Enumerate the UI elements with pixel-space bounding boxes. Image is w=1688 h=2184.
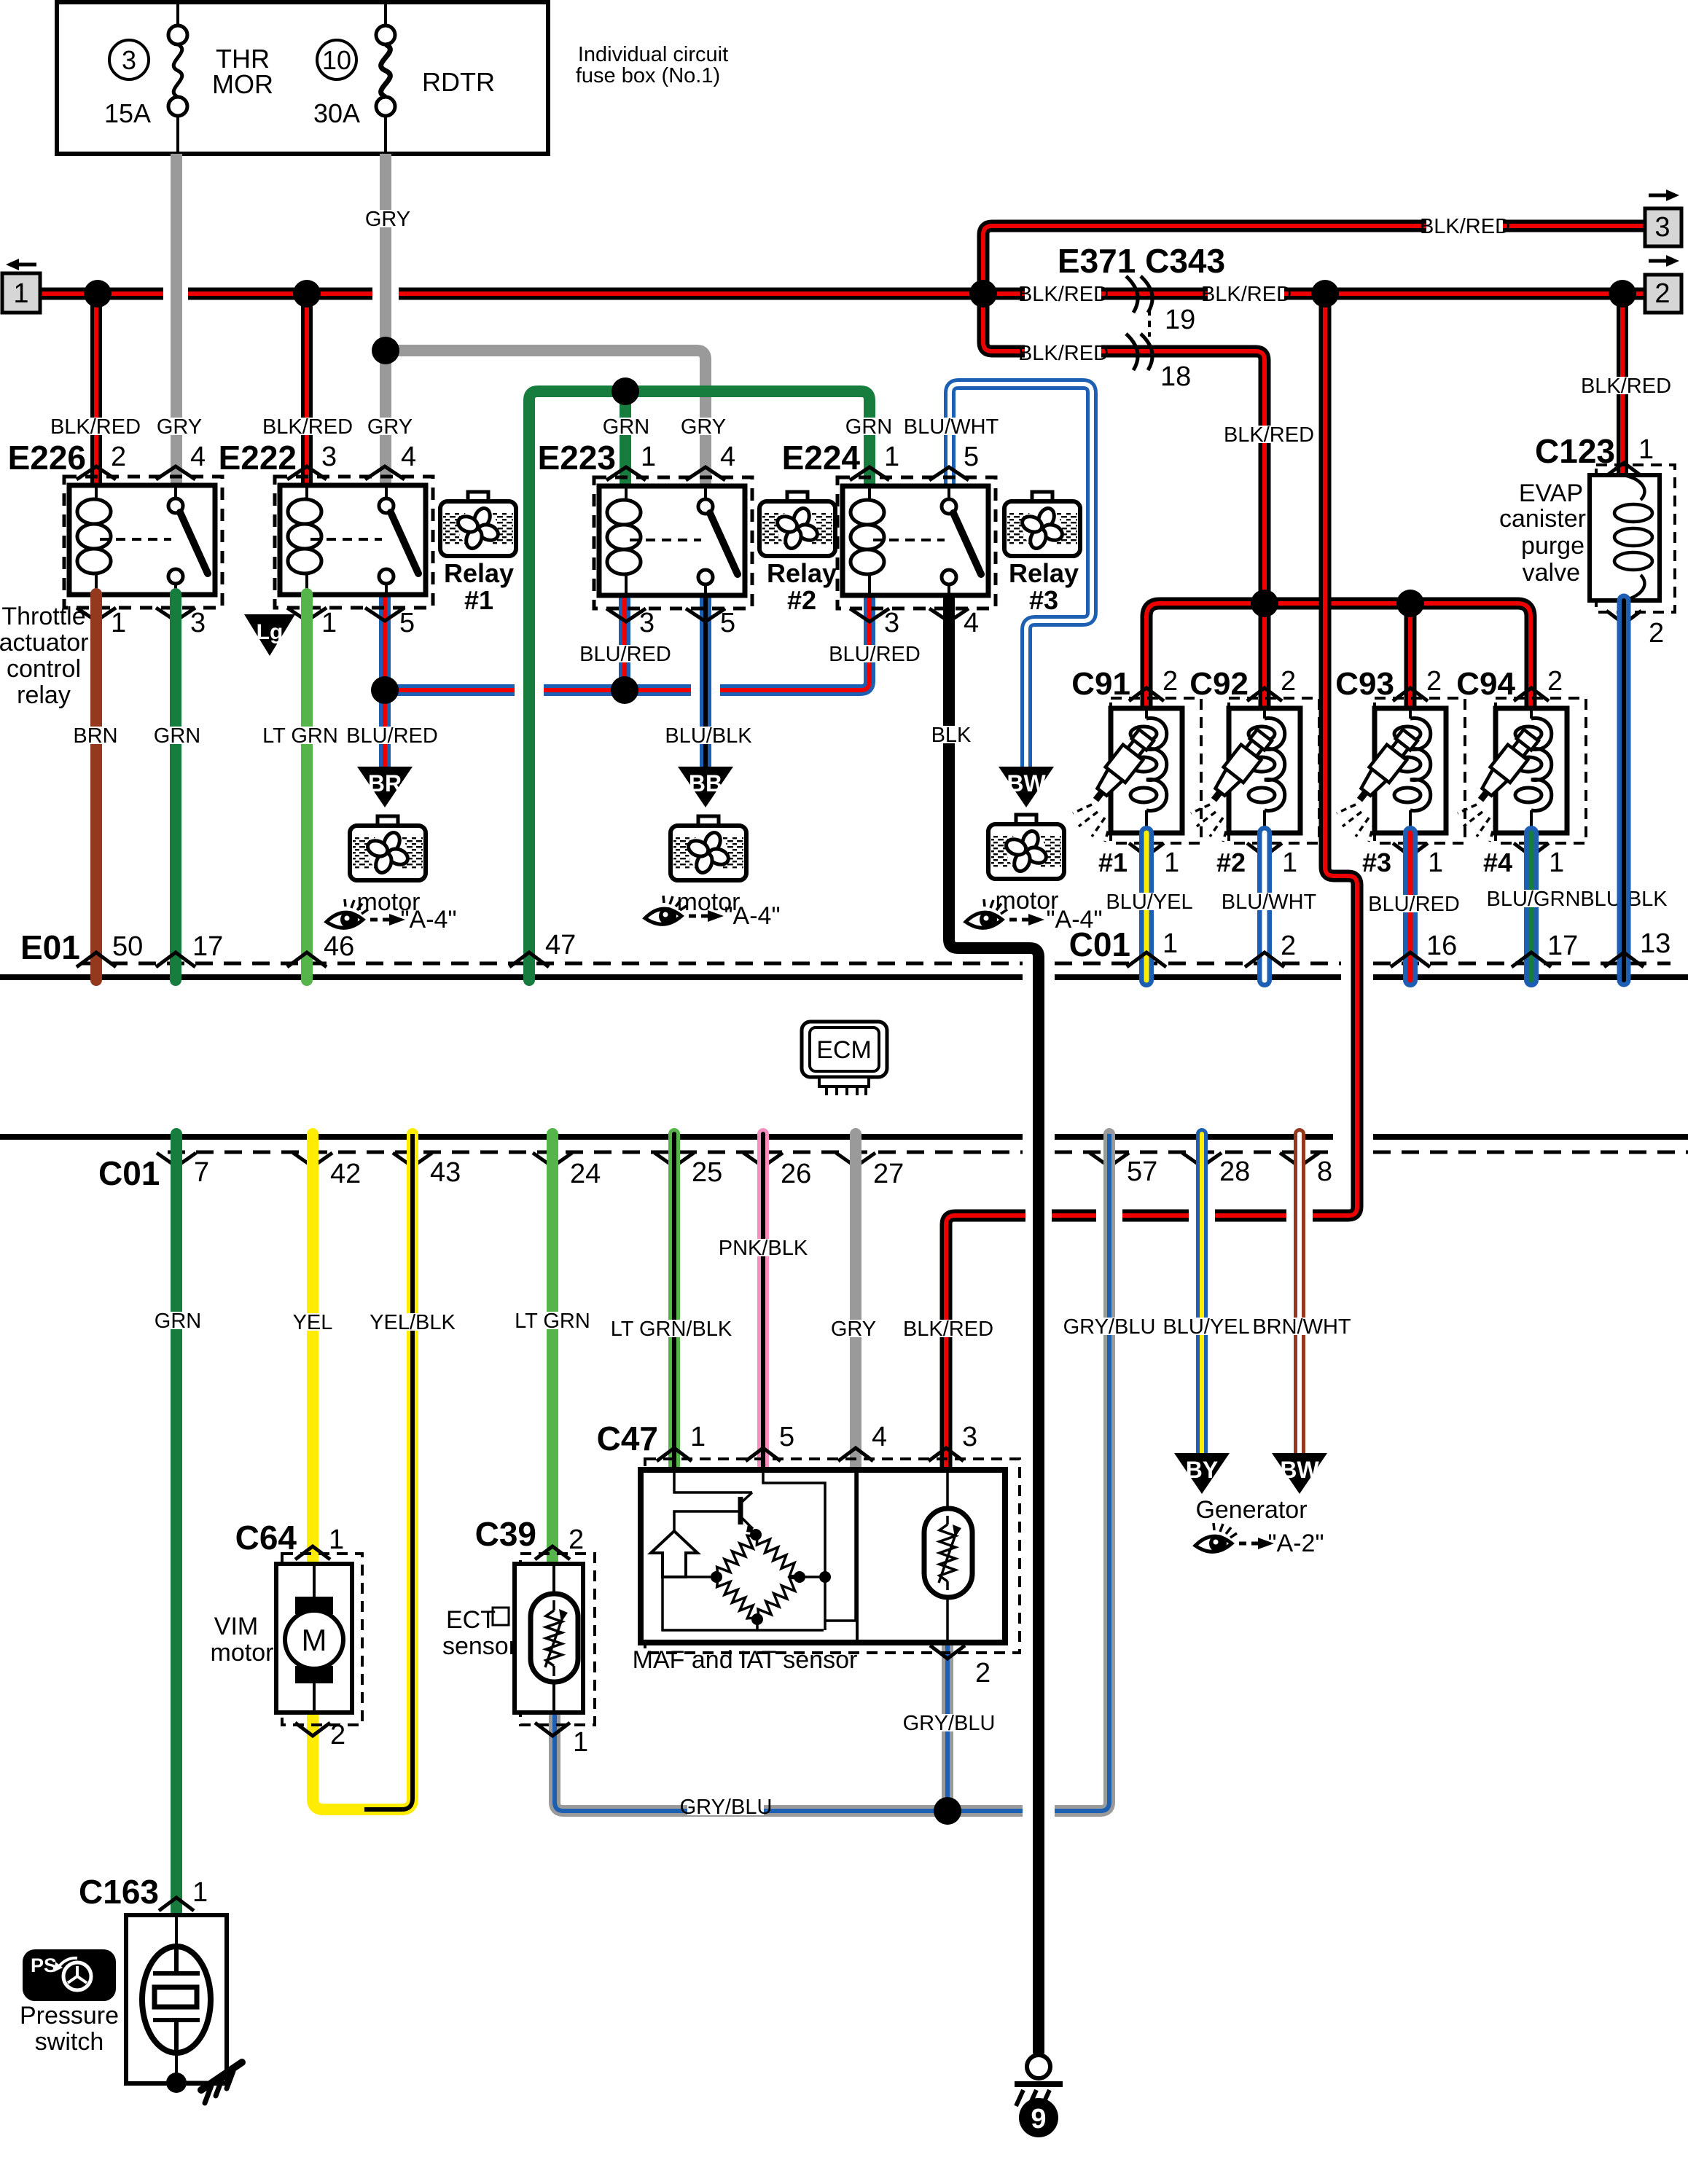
injector C92 [1191, 698, 1319, 843]
wire BLU/GRN injector C94 pin1 to C01 pin17 [1524, 833, 1539, 980]
node C01 row2 connector dashed line [168, 1151, 1688, 1154]
wire BLK/RED injector distribution [1146, 603, 1531, 710]
svg-text:2: 2 [330, 1720, 345, 1750]
svg-text:15A: 15A [104, 98, 151, 128]
svg-text:GRY: GRY [365, 208, 410, 231]
svg-text:C47: C47 [597, 1420, 658, 1457]
node E01 row1 label and pins [20, 928, 576, 967]
node C01 row2 boundary solid line [0, 1134, 1688, 1140]
svg-text:BLU/YEL: BLU/YEL [1106, 891, 1192, 914]
label 19 [1165, 305, 1195, 335]
svg-text:1: 1 [1282, 848, 1297, 878]
svg-text:E224: E224 [782, 439, 861, 477]
svg-text:#3: #3 [1362, 848, 1391, 877]
svg-text:GRY: GRY [367, 415, 413, 439]
relay E226 [64, 477, 222, 608]
relay #3 label [1009, 558, 1079, 615]
svg-text:46: 46 [324, 931, 354, 962]
wire BLU/RED relay E223 pin3 drop [619, 594, 630, 690]
svg-text:1: 1 [1549, 848, 1564, 878]
svg-text:13: 13 [1640, 928, 1671, 959]
wire BLU/BLK relay E223 pin5 to BB arrow [700, 594, 711, 767]
svg-text:1: 1 [13, 278, 28, 309]
svg-text:2: 2 [1281, 931, 1296, 961]
svg-text:"A-2": "A-2" [1267, 1530, 1324, 1557]
svg-text:BLK: BLK [931, 724, 972, 747]
pressure switch C163 [126, 1915, 227, 2083]
svg-text:EVAP: EVAP [1519, 480, 1583, 507]
injector wire color labels [1106, 888, 1668, 916]
arrow BW [999, 767, 1054, 807]
svg-text:Relay: Relay [1009, 558, 1079, 588]
svg-text:4: 4 [872, 1422, 887, 1452]
svg-text:"A-4": "A-4" [724, 902, 780, 930]
svg-text:BRN/WHT: BRN/WHT [1252, 1315, 1351, 1339]
svg-text:1: 1 [329, 1525, 344, 1555]
individual circuit fuse box No.1 [57, 2, 548, 154]
node C01 row1 label and pins [1069, 925, 1671, 967]
svg-text:BY: BY [1186, 1457, 1218, 1483]
relay E224 pins 1,5,3,4 [850, 442, 979, 638]
svg-text:GRY: GRY [831, 1318, 876, 1341]
svg-text:GRY/BLU: GRY/BLU [1063, 1315, 1156, 1339]
svg-text:47: 47 [545, 930, 576, 960]
svg-text:9: 9 [1031, 2104, 1046, 2134]
svg-text:BW: BW [1280, 1457, 1319, 1483]
svg-text:BLK/RED: BLK/RED [50, 415, 141, 439]
injector C93 pins [1362, 666, 1443, 878]
svg-text:C91: C91 [1071, 666, 1130, 702]
connector 3 [1645, 189, 1681, 246]
svg-text:2: 2 [1649, 618, 1664, 649]
relay #1 label [444, 558, 514, 615]
svg-text:57: 57 [1127, 1156, 1157, 1187]
svg-text:5: 5 [779, 1422, 794, 1452]
svg-text:relay: relay [17, 681, 71, 709]
svg-text:C39: C39 [475, 1515, 536, 1553]
svg-text:GRY/BLU: GRY/BLU [680, 1796, 773, 1819]
connector break E371 C343 pin18 [1126, 334, 1152, 370]
svg-text:BLK/RED: BLK/RED [1018, 342, 1109, 365]
junction GRN [611, 377, 639, 405]
svg-text:Relay: Relay [444, 558, 514, 588]
wire GRY/BLU C01 pin57 to junction [555, 1134, 1109, 1811]
svg-text:2: 2 [111, 442, 126, 472]
svg-text:#4: #4 [1483, 848, 1512, 877]
label motor A-4 (BW) [966, 887, 1103, 934]
svg-text:valve: valve [1523, 559, 1580, 587]
C47 label and pins [597, 1420, 991, 1688]
svg-text:VIM: VIM [214, 1613, 258, 1640]
svg-text:30A: 30A [313, 98, 360, 128]
svg-text:8: 8 [1317, 1156, 1332, 1187]
injector C92 pins [1216, 666, 1297, 878]
svg-text:BLU/RED: BLU/RED [829, 643, 921, 666]
svg-text:E371 C343: E371 C343 [1058, 242, 1225, 280]
wire BLU/YEL injector C91 pin1 to C01 pin1 [1139, 833, 1154, 980]
relay #1 icon [440, 492, 516, 556]
svg-text:GRY: GRY [681, 415, 726, 439]
svg-text:18: 18 [1160, 361, 1191, 392]
label BLK/RED at C123 [1581, 375, 1671, 398]
svg-text:4: 4 [401, 442, 416, 472]
svg-text:GRN: GRN [155, 1310, 201, 1333]
svg-text:BLK/RED: BLK/RED [903, 1318, 993, 1341]
relay E222 pins 3,4,1,5 [287, 442, 416, 638]
arrow BR [357, 767, 413, 807]
svg-text:ECM: ECM [816, 1036, 872, 1064]
relay E223 label [538, 439, 616, 477]
svg-text:purge: purge [1521, 532, 1585, 560]
IAT thermistor [924, 1470, 972, 1643]
svg-text:42: 42 [330, 1159, 361, 1189]
C39 label and pins [475, 1515, 589, 1758]
svg-text:3: 3 [962, 1422, 977, 1452]
svg-text:2: 2 [1547, 666, 1563, 697]
svg-text:E226: E226 [8, 439, 86, 477]
svg-text:E222: E222 [219, 439, 297, 477]
svg-text:1: 1 [1428, 848, 1443, 878]
svg-text:#1: #1 [464, 585, 493, 615]
svg-text:E01: E01 [20, 928, 80, 966]
svg-text:BLK/RED: BLK/RED [1201, 283, 1292, 306]
svg-text:GRN: GRN [603, 415, 649, 439]
svg-text:fuse box (No.1): fuse box (No.1) [576, 64, 720, 87]
svg-text:17: 17 [1547, 931, 1578, 961]
svg-text:1: 1 [690, 1422, 706, 1452]
injector C91 [1073, 698, 1201, 843]
svg-text:4: 4 [190, 442, 206, 472]
svg-text:26: 26 [781, 1159, 811, 1189]
junction GRY [372, 337, 399, 364]
ECT sensor C39 [515, 1554, 595, 1725]
wire BLK/RED main bus to MAF C47 pin3 [946, 294, 1357, 1470]
junction GRY/BLU [934, 1797, 961, 1825]
relay #3 icon [1004, 492, 1080, 556]
wire BLU/RED horizontal link [385, 594, 870, 690]
svg-text:PNK/BLK: PNK/BLK [719, 1237, 808, 1260]
MAF internal circuit [651, 1470, 856, 1630]
svg-text:BLU/RED: BLU/RED [579, 643, 671, 666]
wire GRY fuse3 to relay E226 pin4 [171, 154, 182, 485]
svg-text:25: 25 [692, 1157, 722, 1188]
svg-text:BLK/RED: BLK/RED [1224, 423, 1314, 447]
svg-text:control: control [7, 655, 81, 683]
svg-text:GRY: GRY [157, 415, 202, 439]
svg-text:BLU/YEL: BLU/YEL [1163, 1315, 1249, 1339]
ECM module icon [802, 1022, 887, 1095]
C163 label and pin [79, 1873, 208, 1911]
wire BLU/WHT relay E224 pin5 to BW arrow [950, 384, 1092, 767]
svg-text:Generator: Generator [1195, 1496, 1307, 1524]
wire GRN branch to relay E223 pin1 [620, 391, 631, 490]
svg-text:BRN: BRN [73, 724, 117, 748]
svg-text:Pressure: Pressure [20, 2002, 119, 2030]
svg-text:E223: E223 [538, 439, 616, 477]
svg-text:ECT: ECT [446, 1606, 496, 1634]
svg-text:LT GRN: LT GRN [515, 1310, 590, 1333]
wire LT GRN E222 pin1 to E01 pin46 [301, 594, 313, 980]
svg-text:2: 2 [975, 1658, 990, 1688]
svg-text:3: 3 [122, 45, 136, 75]
svg-text:GRY/BLU: GRY/BLU [903, 1712, 996, 1735]
svg-text:#2: #2 [787, 585, 816, 615]
relay E223 pins 1,4,3,5 [606, 442, 735, 638]
svg-text:1: 1 [1638, 434, 1654, 465]
svg-text:BLK/RED: BLK/RED [1420, 215, 1510, 238]
svg-text:1: 1 [573, 1727, 588, 1758]
svg-text:2: 2 [1654, 278, 1670, 309]
svg-text:4: 4 [720, 442, 735, 472]
wire BLU/RED relay E222 pin5 to BR arrow [379, 594, 391, 767]
svg-text:BLU/RED: BLU/RED [1368, 893, 1460, 916]
arrow Lg [244, 614, 295, 656]
wire PNK/BLK C01 pin26 to MAF C47 pin5 [757, 1134, 769, 1470]
svg-text:5: 5 [399, 608, 415, 638]
wire YEL/BLK C01 pin43 to VIM motor C64 pin2 [313, 1134, 413, 1809]
wire GRN from C01 pin47 to relay E224 pin1 [529, 391, 870, 980]
connector break E371 C343 pin19 [1126, 276, 1152, 313]
wire BLU/BLK C123 pin2 to C01 pin13 [1617, 600, 1631, 980]
wire dashed link between breaks [1148, 309, 1151, 337]
svg-text:17: 17 [192, 931, 223, 962]
wire BLU/YEL C01 pin28 to BY arrow [1196, 1134, 1208, 1455]
label VIM motor [211, 1613, 274, 1667]
relay E224 label [782, 439, 861, 477]
svg-text:BLU/RED: BLU/RED [346, 724, 438, 748]
row2 wire color labels [155, 1237, 1351, 1341]
svg-text:C01: C01 [1069, 925, 1130, 963]
svg-text:1: 1 [884, 442, 899, 472]
labels BLK/RED on bus [1018, 215, 1510, 447]
MAF and IAT sensor C47 box [641, 1459, 1020, 1653]
wire GRY fuse10 to relay E222 pin4 [380, 154, 391, 485]
wire GRY/BLU MAF C47 pin2 to junction [942, 1643, 953, 1811]
connector 2 [1645, 255, 1681, 313]
svg-text:2: 2 [1426, 666, 1442, 697]
svg-text:canister: canister [1499, 505, 1586, 533]
wire YEL C01 pin42 to VIM motor C64 pin1 [307, 1134, 319, 1564]
svg-text:actuator: actuator [0, 629, 88, 657]
svg-text:3: 3 [190, 608, 206, 638]
junction BLK/RED at E222 [293, 280, 321, 308]
relay E222 label [219, 439, 297, 477]
svg-text:GRN: GRN [154, 724, 200, 748]
svg-text:3: 3 [321, 442, 337, 472]
label EVAP canister purge valve [1499, 480, 1586, 587]
junction BLU/RED at E223 [611, 676, 638, 704]
label GRY on fuse10 wire [365, 208, 410, 231]
svg-text:YEL/BLK: YEL/BLK [370, 1311, 456, 1334]
relay #2 label [767, 558, 837, 615]
wire color labels below relays [73, 643, 972, 748]
junction BLK/RED injector C93 feed [1396, 590, 1424, 617]
svg-text:GRN: GRN [845, 415, 892, 439]
svg-text:10: 10 [322, 45, 351, 75]
svg-text:switch: switch [35, 2028, 103, 2056]
connector 1 [2, 259, 40, 313]
svg-text:C92: C92 [1189, 666, 1249, 702]
svg-text:2: 2 [568, 1525, 584, 1555]
label throttle actuator control relay [0, 603, 88, 709]
svg-text:3: 3 [1654, 212, 1670, 243]
wire LT GRN C01 pin24 to ECT sensor C39 pin2 [547, 1134, 558, 1564]
relay E223 [594, 477, 752, 608]
label 18 [1160, 361, 1191, 392]
relay E226 pins 2,4,1,3 [77, 442, 206, 638]
junction BLK/RED at E226 [84, 280, 112, 308]
motor icon below BW [988, 815, 1064, 879]
svg-text:LT GRN/BLK: LT GRN/BLK [611, 1318, 732, 1341]
svg-text:C163: C163 [79, 1873, 159, 1911]
wire BLK/RED to relay E222 pin3 [301, 294, 313, 485]
wire BLK/RED main feed bus from connector 1 to connector 2 [40, 288, 1645, 300]
svg-text:1: 1 [111, 608, 126, 638]
svg-text:sensor: sensor [442, 1632, 517, 1660]
injector C94 label [1456, 666, 1515, 702]
wire GRN C01 pin7 to pressure switch C163 [171, 1134, 182, 1915]
wire BLK/RED to EVAP valve C123 pin1 [1617, 294, 1628, 475]
label ECT sensor [442, 1606, 517, 1660]
motor icon below BB [671, 816, 746, 880]
fuse box label [576, 43, 728, 87]
injector C93 [1337, 698, 1465, 843]
wire BLK/RED to relay E226 pin2 [90, 294, 102, 485]
relay #2 icon [759, 492, 835, 556]
svg-text:5: 5 [964, 442, 979, 472]
label MAF and IAT sensor [633, 1646, 858, 1674]
svg-text:C64: C64 [235, 1519, 297, 1557]
svg-text:Individual circuit: Individual circuit [578, 43, 728, 66]
VIM motor C64 [276, 1554, 362, 1725]
svg-text:43: 43 [430, 1157, 461, 1188]
arrow BB [678, 767, 733, 807]
junction BLK/RED to MAF feed [1311, 280, 1339, 308]
wire BRN/WHT C01 pin8 to BW arrow [1294, 1134, 1305, 1455]
svg-text:#3: #3 [1029, 585, 1058, 615]
svg-text:C01: C01 [98, 1154, 160, 1192]
svg-text:YEL: YEL [293, 1311, 333, 1334]
svg-text:RDTR: RDTR [422, 67, 495, 97]
injector C92 label [1189, 666, 1249, 702]
svg-text:50: 50 [112, 931, 143, 962]
node C01 row2 label and pins [98, 1153, 1332, 1192]
svg-text:1: 1 [321, 608, 337, 638]
arrow BW generator [1272, 1453, 1327, 1494]
svg-text:BLK/RED: BLK/RED [1581, 375, 1671, 398]
svg-text:C94: C94 [1456, 666, 1515, 702]
svg-text:MOR: MOR [212, 69, 273, 99]
ground 9 [1015, 2055, 1063, 2137]
label Generator A-2 [1195, 1496, 1324, 1557]
relay E224 [837, 477, 996, 608]
svg-text:BLK/RED: BLK/RED [1018, 283, 1109, 306]
wire BLU/RED injector C93 pin1 to C01 pin16 [1403, 833, 1418, 980]
svg-text:PS: PS [31, 1954, 57, 1976]
svg-text:28: 28 [1219, 1156, 1250, 1187]
svg-text:2: 2 [1281, 666, 1296, 697]
EVAP canister purge valve C123 [1590, 465, 1675, 612]
C64 label and pins [235, 1519, 346, 1750]
wire BLK/RED branch 18 to injector feed [983, 294, 1265, 710]
svg-text:C123: C123 [1535, 432, 1615, 470]
C163 bottom junction and ground [166, 2062, 242, 2103]
svg-text:Lg: Lg [257, 620, 284, 644]
svg-text:BW: BW [1007, 770, 1046, 797]
svg-text:#2: #2 [1216, 848, 1246, 877]
svg-text:M: M [302, 1623, 327, 1657]
wire BRN E226 pin1 to E01 pin50 [90, 594, 102, 980]
arrow BY generator [1174, 1453, 1230, 1494]
svg-text:1: 1 [641, 442, 656, 472]
svg-text:BLK/RED: BLK/RED [262, 415, 353, 439]
wire GRN E226 pin3 to E01 pin17 [170, 594, 181, 980]
svg-text:#1: #1 [1098, 848, 1128, 877]
label Pressure switch [20, 2002, 119, 2056]
injector C94 [1458, 698, 1586, 843]
svg-text:C93: C93 [1335, 666, 1394, 702]
wire LT GRN/BLK C01 pin25 to MAF C47 pin1 [668, 1134, 680, 1470]
wire GRY C01 pin27 to MAF C47 pin4 [850, 1134, 861, 1470]
svg-text:4: 4 [964, 608, 979, 638]
svg-text:3: 3 [639, 608, 655, 638]
svg-text:"A-4": "A-4" [400, 906, 456, 934]
svg-text:2: 2 [1163, 666, 1178, 697]
svg-text:BLU/GRN: BLU/GRN [1487, 888, 1581, 911]
svg-text:BLU/BLK: BLU/BLK [665, 724, 752, 748]
node E01/C01 row boundary solid line [0, 974, 1688, 980]
svg-text:5: 5 [720, 608, 735, 638]
svg-text:motor: motor [211, 1639, 274, 1667]
wire BLK/RED branch to connector 3 [983, 226, 1645, 294]
svg-text:BLU/WHT: BLU/WHT [1222, 891, 1317, 914]
C123 label and pins [1535, 432, 1664, 649]
svg-text:BR: BR [368, 770, 402, 797]
fuse 10 RDTR 30A [317, 2, 395, 154]
label E371 C343 [1058, 242, 1225, 280]
junction BLU/RED at E222 [371, 676, 399, 704]
label motor A-4 (BR) [327, 888, 457, 934]
svg-text:1: 1 [1163, 928, 1178, 959]
motor icon below BR [350, 816, 426, 880]
svg-text:1: 1 [192, 1877, 208, 1908]
svg-text:BB: BB [689, 770, 722, 797]
fuse 3 THR MOR 15A [109, 2, 187, 154]
junction BLK/RED injector C92 feed [1251, 590, 1278, 617]
relay E222 [275, 477, 433, 608]
node E01/C01 row connector dashed line [82, 962, 1671, 966]
injector C94 pins [1483, 666, 1564, 878]
svg-text:27: 27 [873, 1159, 904, 1189]
svg-text:LT GRN: LT GRN [262, 724, 338, 748]
wire GRY branch to relay E223 pin4 [386, 351, 706, 490]
wire BLU/WHT injector C92 pin1 to C01 pin2 [1257, 833, 1272, 980]
wire BLK relay E224 pin4 to ground 9 [949, 594, 1039, 2054]
PS icon [23, 1949, 116, 2001]
svg-text:BLU/WHT: BLU/WHT [904, 415, 999, 439]
injector C91 pins [1098, 666, 1179, 878]
svg-text:Throttle: Throttle [1, 603, 85, 630]
junction BLK/RED at C123 [1609, 280, 1636, 308]
label motor A-4 (BB) [645, 888, 781, 930]
wire labels above relays [50, 415, 999, 439]
svg-text:7: 7 [194, 1157, 209, 1188]
svg-text:16: 16 [1426, 931, 1457, 961]
svg-text:MAF and IAT sensor: MAF and IAT sensor [633, 1646, 858, 1674]
svg-text:3: 3 [884, 608, 899, 638]
svg-text:24: 24 [570, 1159, 601, 1189]
svg-text:1: 1 [1164, 848, 1179, 878]
